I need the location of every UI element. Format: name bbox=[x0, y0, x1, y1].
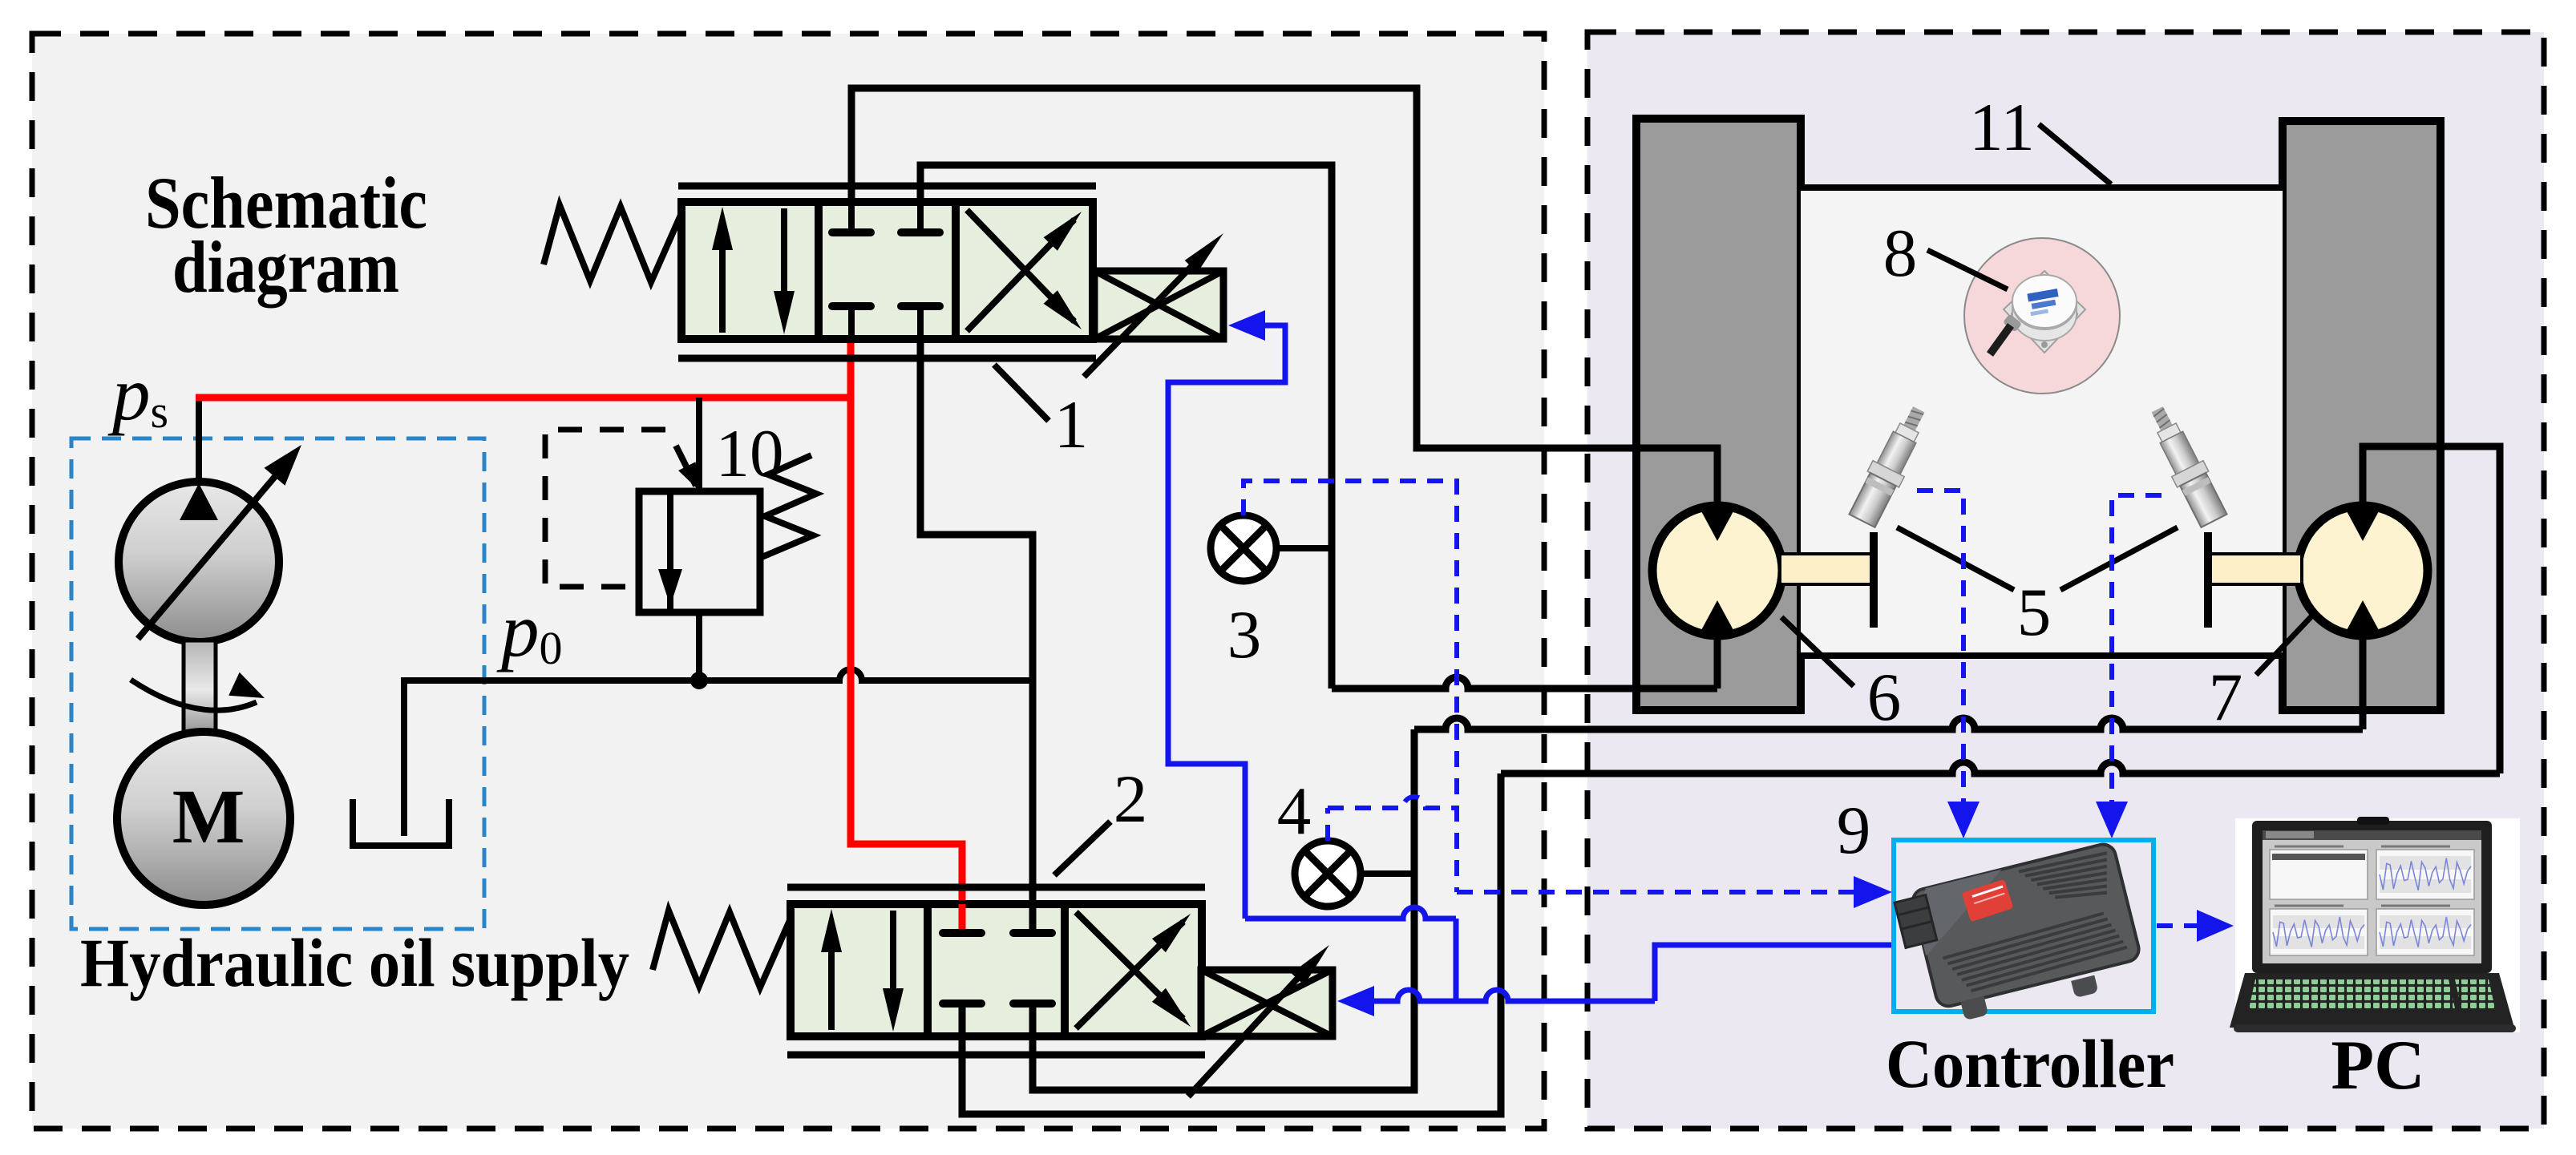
wire valve2 bottom port A to riser x1872 bbox=[962, 773, 1501, 1114]
inclination sensor 5 (left) bbox=[1846, 402, 1935, 529]
valve 2 (servo valve) return spring bbox=[653, 911, 791, 987]
tank feed line bbox=[401, 677, 407, 836]
PC laptop base/keyboard bbox=[2230, 973, 2514, 1028]
label 7 leader bbox=[2256, 616, 2312, 675]
encoder 8 pink disc bbox=[1964, 238, 2120, 394]
bearing pedestal left (dark slab) bbox=[1636, 119, 1801, 710]
label 5 leader lines bbox=[1897, 527, 2014, 590]
wire riser x1764 to motor 7 bottom (long line y=910) bbox=[1414, 718, 2363, 729]
valve 2 (servo valve) left-position up arrow bbox=[828, 949, 835, 1030]
valve 2 (servo valve) bottom rail bbox=[787, 1052, 1205, 1059]
valve 1 (servo valve) body bbox=[681, 202, 1093, 339]
encoder label bbox=[2027, 289, 2060, 316]
relief valve inner flow arrow bbox=[658, 569, 682, 606]
platform bottom line bbox=[1801, 652, 2283, 659]
svg-text:8: 8 bbox=[1883, 216, 1918, 291]
bearing pedestal right (dark slab) bbox=[2283, 121, 2441, 710]
svg-text:diagram: diagram bbox=[172, 226, 399, 308]
label 11 leader bbox=[2039, 124, 2111, 184]
relief valve pilot arrowhead bbox=[676, 446, 696, 486]
valve 2 (servo valve) proportional solenoid box bbox=[1201, 970, 1332, 1036]
pump P1 (variable displacement) circle bbox=[119, 482, 279, 642]
svg-text:7: 7 bbox=[2209, 660, 2243, 735]
controller ECU device bbox=[1893, 842, 2147, 1035]
svg-text:Hydraulic oil supply: Hydraulic oil supply bbox=[80, 924, 629, 1001]
svg-text:M: M bbox=[172, 773, 245, 859]
valve 2 (servo valve) right-position crossed arrows bbox=[1076, 922, 1183, 1028]
valve 2 (servo valve) top rail bbox=[787, 884, 1205, 891]
test platform area bbox=[1801, 189, 2283, 656]
blue dashed link controller to PC bbox=[2157, 923, 2202, 928]
relief valve inner passage line bbox=[667, 491, 673, 612]
gauge 4 tap line bbox=[1361, 870, 1414, 877]
encoder cable gland bbox=[2003, 313, 2022, 332]
pump-motor shaft bbox=[184, 640, 216, 740]
motor 6 shaft flange bbox=[1870, 532, 1878, 628]
controller 9 cyan box bbox=[1894, 840, 2153, 1012]
relief valve outlet line bbox=[696, 612, 702, 680]
pump outlet triangle bbox=[180, 483, 218, 520]
svg-text:2: 2 bbox=[1114, 761, 1148, 837]
relief valve 10 pilot line from ps bbox=[696, 398, 702, 491]
valve 1 (servo valve) return spring bbox=[544, 205, 681, 282]
shaft/beam 11 top line bbox=[1801, 184, 2283, 191]
PC backdrop bbox=[2235, 818, 2520, 1032]
valve 2 (servo valve) section dividers bbox=[924, 904, 932, 1036]
svg-text:9: 9 bbox=[1837, 793, 1871, 868]
blue dashed signal into controller bbox=[1457, 890, 1863, 895]
blue command branch riser to valve 1 bbox=[1454, 919, 1459, 1001]
svg-text:6: 6 bbox=[1867, 660, 1902, 735]
relief valve 10 body bbox=[639, 491, 760, 612]
wire pump outlet to p_s node bbox=[196, 394, 202, 495]
blue dashed signal from gauge 4 bbox=[1328, 797, 1457, 808]
relief valve 10 pilot dashed box bbox=[545, 430, 665, 587]
hydraulic oil supply dashed box bbox=[71, 438, 484, 929]
valve 1 (servo valve) left-position up arrow bbox=[719, 247, 726, 333]
motor 7 shaft flange bbox=[2204, 532, 2212, 628]
PC screen plots bbox=[2270, 850, 2368, 899]
svg-text:Controller: Controller bbox=[1886, 1025, 2174, 1102]
relief valve spring bbox=[760, 455, 816, 558]
valve 1 (servo valve) bottom rail bbox=[678, 355, 1096, 362]
pressure gauge 4 bbox=[1295, 841, 1361, 907]
label 6 leader bbox=[1781, 617, 1854, 686]
valve 2 (servo valve) body bbox=[791, 904, 1202, 1036]
valve 1 (servo valve) proportional solenoid box bbox=[1094, 271, 1223, 339]
blue dashed signal from right sensor to controller bbox=[2112, 495, 2161, 803]
svg-text:PC: PC bbox=[2331, 1027, 2424, 1105]
wire valve1 port A up and over to motor 6 top bbox=[851, 88, 1717, 505]
wire valve2 bottom port B to riser x1764 bbox=[1033, 729, 1414, 1090]
red supply line ps horizontal bbox=[196, 394, 851, 402]
red supply branch to valve 1 P port bbox=[847, 337, 855, 398]
svg-text:10: 10 bbox=[716, 416, 784, 491]
pump variable-displacement arrow bbox=[138, 458, 290, 639]
svg-text:4: 4 bbox=[1277, 773, 1312, 849]
label 1 leader line bbox=[994, 365, 1049, 421]
valve 1 (servo valve) adjustability arrow bbox=[1084, 255, 1203, 377]
motor 7 output shaft bbox=[2208, 554, 2302, 584]
gauge 3 tap line bbox=[1276, 545, 1332, 551]
valve 1 (servo valve) center blocked ports bbox=[832, 228, 871, 236]
motor 6 output shaft bbox=[1780, 554, 1874, 584]
blue dashed signal from left sensor to controller bbox=[1917, 491, 1963, 803]
valve 1 (servo valve) top rail bbox=[678, 183, 1096, 190]
return line p0 (hops over red supply line) bbox=[404, 669, 1033, 680]
wire valve1 port T down to valve2 top port bbox=[920, 339, 1033, 933]
svg-text:11: 11 bbox=[1969, 90, 2035, 165]
right dashed enclosure (test rig region) bbox=[1587, 32, 2544, 1129]
junction dot on p0 line bbox=[690, 672, 708, 689]
valve 2 (servo valve) left-position down arrow bbox=[890, 911, 896, 991]
valve 1 (servo valve) section dividers bbox=[815, 202, 823, 339]
red supply line down to valve 2 P port bbox=[851, 394, 962, 933]
valve 1 (servo valve) left-position down arrow bbox=[781, 208, 787, 294]
wire valve1 port B up/right/down to gauge3 node and motor 6 bottom bbox=[920, 165, 1332, 689]
label 8 leader bbox=[1927, 250, 2008, 289]
encoder cable bbox=[1990, 325, 2011, 354]
label 2 leader line bbox=[1054, 822, 1110, 875]
inclination sensor 5 (right) bbox=[2141, 402, 2230, 529]
valve 2 (servo valve) center blocked ports bbox=[943, 929, 981, 937]
blue dashed signal from gauge 3 bbox=[1244, 481, 1457, 892]
encoder 8 device puck body bbox=[2012, 303, 2077, 341]
electric motor M circle bbox=[117, 732, 290, 905]
svg-text:3: 3 bbox=[1227, 597, 1262, 672]
hydraulic motor 7 bbox=[2298, 506, 2428, 636]
tank symbol bbox=[353, 799, 449, 846]
wire riser x1872 to motor 7 top (long line y=965) bbox=[1501, 762, 2500, 773]
hydraulic motor 6 bbox=[1652, 506, 1782, 636]
red stem into valve 2 P port bbox=[959, 904, 966, 929]
blue command wire from controller to valves bbox=[1655, 945, 1894, 1001]
PC laptop screen bbox=[2252, 821, 2492, 973]
valve 1 (servo valve) right-position crossed arrows bbox=[967, 220, 1074, 331]
valve 2 (servo valve) adjustability arrow bbox=[1188, 967, 1308, 1096]
svg-text:1: 1 bbox=[1054, 387, 1089, 462]
left dashed enclosure (schematic diagram region) bbox=[32, 34, 1544, 1129]
svg-text:5: 5 bbox=[2017, 575, 2052, 650]
shaft rotation arrow bbox=[131, 680, 257, 710]
encoder 8 device mounting plate bbox=[2004, 271, 2085, 353]
pressure gauge 3 bbox=[1211, 515, 1276, 581]
